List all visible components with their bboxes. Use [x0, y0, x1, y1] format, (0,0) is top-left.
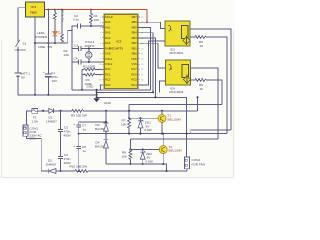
- svg-text:RA5: RA5: [105, 46, 111, 50]
- svg-text:OSC1: OSC1: [105, 57, 113, 61]
- IC2 PIC16F73: [104, 14, 138, 88]
- wire 5V branch to C1: [47, 10, 49, 74]
- resistor R10: [75, 170, 187, 173]
- svg-text:RC0: RC0: [105, 67, 111, 71]
- svg-text:10K: 10K: [64, 53, 70, 57]
- svg-text:MOC3021: MOC3021: [170, 51, 184, 55]
- svg-text:1u: 1u: [83, 149, 87, 153]
- transistor T1: [158, 114, 166, 122]
- svg-text:RB2: RB2: [132, 41, 138, 45]
- PIC pin numbers right: [141, 17, 143, 87]
- capacitor C1: [45, 73, 51, 75]
- wire PIC pin 25 down to bus y4: [138, 38, 156, 97]
- svg-text:+: +: [43, 70, 45, 74]
- T2 base wire: [130, 149, 159, 151]
- svg-text:6: 6: [100, 43, 101, 45]
- switch S1: [16, 40, 20, 47]
- capacitor C4 + OSC2 wire: [72, 61, 104, 63]
- svg-text:1u: 1u: [83, 128, 87, 132]
- svg-text:MOC3021: MOC3021: [170, 90, 184, 94]
- wire fuse to D1: [38, 110, 49, 112]
- svg-text:1: 1: [100, 17, 101, 19]
- capacitor C2: [78, 24, 81, 29]
- CON2: [185, 157, 190, 169]
- bus wire y2: [97, 91, 153, 93]
- wire IC3 pin 2 to PIC pin 15: [138, 41, 165, 85]
- svg-text:28: 28: [141, 17, 143, 19]
- crystal XTAL1: [86, 52, 92, 58]
- svg-text:GND: GND: [87, 85, 95, 89]
- wire IC3 pin 6 to right edge: [190, 29, 231, 130]
- svg-text:RC5: RC5: [131, 78, 137, 82]
- svg-text:10: 10: [99, 64, 101, 66]
- svg-text:8: 8: [100, 54, 101, 56]
- svg-text:VSS: VSS: [131, 62, 136, 66]
- wire CON2 bottom: [186, 169, 188, 171]
- capacitor C7: [78, 122, 80, 125]
- bus wire y4 long: [97, 97, 187, 157]
- wire PIC pin 24 to IC4 pin 1: [138, 43, 166, 68]
- svg-text:RC1: RC1: [105, 73, 111, 77]
- svg-text:5: 5: [100, 38, 101, 40]
- svg-text:16V: 16V: [52, 79, 58, 83]
- svg-text:RB3: RB3: [132, 36, 138, 40]
- gnd column: [96, 90, 98, 98]
- svg-text:1N4007: 1N4007: [46, 163, 57, 167]
- svg-text:1.5A: 1.5A: [32, 120, 39, 124]
- wire D1 to R9: [54, 110, 72, 112]
- resistor R2 vertical: [61, 10, 64, 43]
- svg-text:OSC2: OSC2: [105, 62, 113, 66]
- diode D2: [49, 169, 56, 174]
- svg-text:VDD: VDD: [131, 57, 137, 61]
- CON1 bottom pin wire: [27, 136, 49, 171]
- svg-text:13: 13: [99, 80, 101, 82]
- ground symbol: [93, 98, 99, 102]
- svg-text:16: 16: [141, 80, 143, 82]
- wire IC4 pin 2 to bus y2: [160, 81, 166, 92]
- svg-text:10K: 10K: [121, 123, 127, 127]
- svg-text:CON2: CON2: [192, 158, 201, 162]
- svg-text:RA3: RA3: [105, 36, 111, 40]
- gnd wire y=43: [35, 42, 68, 44]
- svg-text:RC6: RC6: [131, 73, 137, 77]
- wire IC1 gnd down: [34, 17, 36, 95]
- capacitor C8: [78, 134, 80, 147]
- svg-text:12: 12: [99, 74, 101, 76]
- diode D3: [104, 124, 109, 131]
- svg-text:BA159: BA159: [95, 127, 105, 131]
- svg-text:22: 22: [141, 48, 143, 50]
- CON1: [23, 125, 28, 136]
- svg-text:+: +: [73, 122, 75, 126]
- svg-text:18: 18: [141, 69, 143, 71]
- svg-text:20MHz: 20MHz: [85, 44, 95, 48]
- svg-text:5W: 5W: [48, 45, 53, 49]
- wire C7 top: [79, 121, 106, 123]
- wire D2 to R10: [56, 170, 75, 172]
- svg-text:BEL100N: BEL100N: [169, 149, 182, 153]
- svg-text:GND: GND: [104, 101, 112, 105]
- svg-text:BEL100N: BEL100N: [168, 117, 181, 121]
- wire PIC pin 27 down to bus y1: [138, 28, 151, 90]
- svg-text:RA2: RA2: [105, 31, 111, 35]
- shared rail WA: [79, 133, 227, 135]
- svg-text:2: 2: [100, 22, 101, 24]
- svg-text:R10 10E 5W: R10 10E 5W: [70, 165, 88, 169]
- svg-text:RA0: RA0: [105, 20, 111, 24]
- bottom cell wire: [106, 164, 167, 171]
- svg-text:FOR FAN: FOR FAN: [192, 163, 205, 167]
- zener ZD2: [142, 150, 144, 152]
- svg-text:9: 9: [100, 59, 101, 61]
- svg-text:C4: C4: [74, 57, 78, 61]
- wire IC4 return rail: [130, 138, 218, 140]
- page frame: [1, 30, 233, 177]
- diode D1: [49, 108, 54, 113]
- battery BATT.1: [15, 72, 22, 74]
- svg-text:BA159: BA159: [95, 145, 105, 149]
- svg-text:4: 4: [100, 33, 101, 35]
- svg-text:RB1: RB1: [132, 46, 138, 50]
- wire D4 to bottom cell wire: [105, 148, 107, 164]
- IC4 optocoupler: [166, 60, 191, 85]
- node VDD/red rail junction: [146, 21, 148, 23]
- 5V red rail: [44, 10, 147, 23]
- svg-text:7805: 7805: [30, 11, 37, 15]
- wire resistor common to bus: [81, 69, 83, 90]
- diode D4: [104, 141, 109, 148]
- wire CON1 top pin: [27, 111, 32, 125]
- resistor R1: [54, 10, 57, 31]
- resistor R8: [129, 139, 132, 164]
- svg-text:ON/OFF: ON/OFF: [15, 48, 27, 52]
- svg-text:21: 21: [141, 54, 143, 56]
- PIC pin labels: [105, 15, 113, 87]
- wire diode column D3 top: [105, 111, 107, 122]
- svg-text:R9 10E 5W: R9 10E 5W: [71, 114, 87, 118]
- svg-text:0.5W: 0.5W: [145, 128, 152, 132]
- T1 collector junction: [161, 110, 163, 112]
- wire S1 to IC1 input: [18, 8, 26, 40]
- wire upper rail (R6 return): [129, 104, 222, 106]
- capacitor C5: [60, 111, 62, 129]
- svg-text:IC2: IC2: [117, 40, 122, 44]
- wire PIC pin 26 down to bus y2: [138, 33, 153, 93]
- fuse F1: [32, 108, 38, 113]
- wire D3 to WA: [105, 131, 107, 140]
- wire PIC pin 28 to IC3 pin 1: [138, 22, 165, 28]
- svg-text:400V: 400V: [64, 134, 72, 138]
- svg-text:14: 14: [99, 85, 101, 87]
- svg-text:RC4: RC4: [131, 83, 137, 87]
- transistor T2: [159, 146, 167, 154]
- svg-text:PIC16F73: PIC16F73: [109, 47, 123, 51]
- svg-text:VSS: VSS: [105, 52, 110, 56]
- IC3 optocoupler: [165, 21, 190, 46]
- svg-text:RB5: RB5: [132, 25, 138, 29]
- resistor R2 horizontal (PIC pull-up): [82, 68, 104, 71]
- T2 collector junction: [162, 133, 164, 135]
- svg-text:RB6: RB6: [132, 20, 138, 24]
- svg-text:1N4007: 1N4007: [46, 120, 57, 124]
- svg-text:19: 19: [141, 64, 143, 66]
- svg-text:RB7: RB7: [132, 15, 138, 19]
- PIC pin stubs left: [102, 17, 140, 85]
- wire switch to battery: [17, 47, 19, 73]
- svg-text:RB0: RB0: [132, 52, 138, 56]
- svg-text:11: 11: [99, 69, 101, 71]
- svg-text:0.1u: 0.1u: [73, 18, 79, 22]
- resistor R9: [72, 109, 198, 112]
- resistor R4: [90, 10, 93, 26]
- vertical gnd branch x=72.8: [71, 26, 73, 90]
- svg-text:7: 7: [100, 48, 101, 50]
- svg-text:+: +: [73, 144, 75, 148]
- capacitor C3 + OSC1 wire: [72, 47, 104, 49]
- svg-text:RC7: RC7: [131, 67, 137, 71]
- svg-text:RC3: RC3: [105, 83, 111, 87]
- svg-text:10K: 10K: [94, 18, 100, 22]
- svg-text:3: 3: [100, 27, 101, 29]
- svg-text:20: 20: [141, 59, 143, 61]
- svg-text:RA4: RA4: [105, 41, 111, 45]
- nested wire WB: [191, 130, 231, 134]
- svg-text:C3: C3: [74, 44, 78, 48]
- wire C2 left leg: [68, 26, 78, 43]
- svg-text:MCLR: MCLR: [105, 15, 112, 19]
- IC1 7805: [26, 2, 45, 17]
- resistor R5: [190, 36, 227, 134]
- wire Vss pin: [101, 85, 105, 90]
- svg-text:POWER: POWER: [36, 35, 48, 39]
- wire bus y4 to PSU rail: [197, 97, 199, 111]
- zener ZD1: [140, 118, 142, 120]
- svg-text:IC1: IC1: [32, 5, 37, 9]
- svg-text:17: 17: [141, 74, 143, 76]
- capacitor C6: [58, 157, 63, 159]
- svg-text:0.5W: 0.5W: [146, 159, 153, 163]
- svg-text:100E: 100E: [38, 45, 45, 49]
- svg-text:RA1: RA1: [105, 25, 111, 29]
- wire battery to gnd bus: [18, 77, 97, 95]
- LED1: [53, 31, 58, 35]
- wire IC4 pin 6 to right edge: [191, 68, 219, 139]
- svg-text:S1: S1: [23, 42, 27, 46]
- T1 base wire: [129, 117, 158, 119]
- PIC pin numbers left: [99, 17, 101, 87]
- svg-text:10K: 10K: [122, 155, 128, 159]
- svg-text:R2 100E: R2 100E: [83, 65, 95, 69]
- resistor R3 horizontal (PIC pull-up): [82, 73, 104, 76]
- resistor R6: [191, 79, 223, 105]
- svg-text:RC2: RC2: [105, 78, 111, 82]
- svg-text:R1 470E: R1 470E: [61, 9, 65, 21]
- svg-text:RB4: RB4: [132, 31, 138, 35]
- bus wire y1: [72, 89, 151, 91]
- resistor R7: [128, 105, 131, 134]
